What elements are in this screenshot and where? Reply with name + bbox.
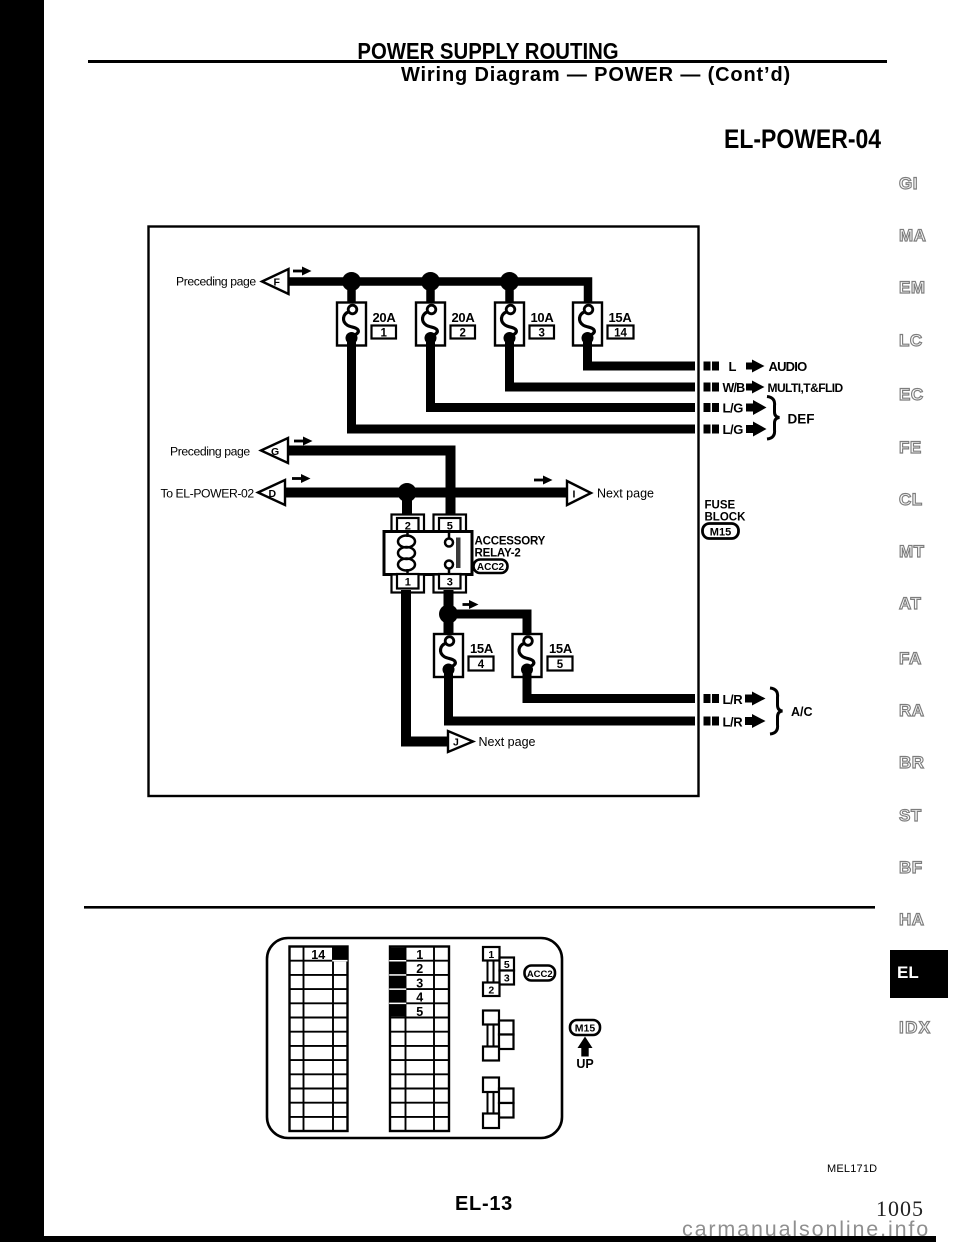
section tab FA (899, 649, 922, 669)
wire continuation dashes A/C upper (704, 694, 720, 703)
svg-text:RELAY-2: RELAY-2 (475, 548, 521, 560)
wire branch dot to fuse 5 (449, 614, 528, 637)
flow arrow after D (292, 474, 311, 483)
fuse 4 15A (434, 634, 463, 677)
relay ACC2 footprint pin 1 (483, 947, 500, 961)
fuse 2 20A (416, 303, 445, 346)
fuse 14 15A (573, 303, 602, 346)
wire stub bus to fuse 2 (426, 282, 435, 306)
label ACCESSORY RELAY-2 (475, 536, 546, 560)
svg-text:L/G: L/G (723, 422, 744, 437)
svg-text:4: 4 (478, 659, 485, 671)
svg-text:BLOCK: BLOCK (705, 512, 747, 524)
net label L AUDIO (729, 359, 808, 374)
connector badge ACC2 (474, 560, 508, 574)
svg-text:ACC2: ACC2 (477, 562, 505, 573)
svg-text:15A: 15A (470, 641, 494, 656)
fuse block middle grid (390, 947, 449, 1132)
fuse 14 location cell (311, 947, 347, 962)
pin number box 3 (530, 326, 555, 340)
svg-text:I: I (573, 489, 576, 501)
fuse 3 location cell (416, 976, 423, 990)
section tab BR (899, 753, 925, 773)
relay ACC2 footprint pin 2 (483, 983, 500, 997)
svg-text:UP: UP (576, 1057, 593, 1071)
bottom black margin bar (0, 1236, 936, 1242)
svg-text:Preceding page: Preceding page (176, 275, 256, 289)
svg-text:5: 5 (557, 659, 564, 671)
svg-text:5: 5 (416, 1005, 423, 1019)
relay footprint C pins right (499, 1089, 514, 1118)
wire fuse 5 to A/C exit upper (527, 672, 695, 699)
relay ACC2 pin 5 terminal (434, 515, 467, 533)
wire continuation dashes MULTI (704, 383, 720, 392)
svg-text:W/B: W/B (723, 381, 746, 395)
pin number box 2 (451, 326, 476, 340)
footer image code MEL171D (827, 1163, 877, 1175)
svg-text:FUSE: FUSE (705, 500, 736, 512)
title rule (88, 60, 887, 63)
connector badge M15 (703, 524, 739, 539)
relay switch contacts (445, 532, 461, 576)
label FUSE BLOCK (705, 500, 747, 524)
wire main bus from F to fuse 14 (288, 282, 588, 306)
svg-text:1: 1 (488, 949, 494, 961)
wire fuse 1 to DEF exit 2 (352, 341, 696, 429)
svg-text:To EL-POWER-02: To EL-POWER-02 (161, 487, 255, 501)
wire fuse 4 to A/C exit lower (449, 672, 696, 721)
wire relay pin 3 down to fuse 4 (444, 590, 454, 637)
svg-text:ACCESSORY: ACCESSORY (475, 536, 546, 548)
fuse 2 location cell (416, 962, 423, 976)
orientation arrow UP (576, 1037, 593, 1072)
svg-text:3: 3 (504, 973, 510, 985)
section tab IDX (899, 1018, 932, 1038)
relay footprint C body (488, 1092, 494, 1114)
wire fuse 3 to MULTI exit (510, 341, 696, 387)
junction dot above fuse 1 (342, 272, 361, 291)
subtitle Wiring Diagram - POWER - (Cont'd) (396, 64, 796, 87)
relay footprint B pin top (483, 1011, 499, 1025)
relay ACC2 footprint pin 5 (500, 958, 515, 972)
left black margin bar (0, 0, 44, 1242)
pin number box 14 (608, 326, 634, 340)
footer rule (84, 906, 875, 909)
node G triangle (from preceding page) (261, 438, 288, 463)
svg-text:L/R: L/R (723, 715, 744, 730)
section tab MT (899, 542, 925, 562)
badge M15 beside panel (570, 1020, 600, 1035)
relay ACC2 pin 3 terminal (434, 574, 467, 593)
section tab EC (899, 385, 924, 405)
brace DEF group (767, 397, 780, 440)
section tab GI (899, 174, 918, 194)
pin number box 1 (372, 326, 397, 340)
relay footprint B body (488, 1025, 494, 1047)
svg-text:14: 14 (614, 328, 627, 340)
node D triangle (to EL-POWER-02) (258, 480, 285, 505)
folio number 1005 (876, 1196, 924, 1222)
svg-text:ACC2: ACC2 (527, 969, 553, 980)
svg-text:AUDIO: AUDIO (769, 359, 808, 374)
fuse 5 15A (513, 634, 542, 677)
section tab HA (899, 910, 925, 930)
svg-text:14: 14 (311, 948, 325, 962)
fuse 1 20A (337, 303, 366, 346)
wire G to relay pin 5 (288, 451, 451, 518)
svg-text:M15: M15 (710, 527, 731, 539)
pin number box 4 (469, 657, 494, 672)
svg-text:15A: 15A (609, 310, 633, 325)
svg-text:L/R: L/R (723, 692, 744, 707)
wire D bus to I (285, 488, 567, 498)
svg-text:DEF: DEF (788, 412, 815, 427)
svg-text:Preceding page: Preceding page (170, 445, 250, 459)
node I triangle (next page) (567, 481, 591, 505)
svg-text:L: L (729, 359, 737, 374)
wire stub bus to fuse 1 (347, 282, 356, 306)
section tab ST (899, 806, 922, 826)
svg-text:2: 2 (416, 962, 423, 976)
wire continuation dashes DEF 1 (704, 403, 720, 412)
svg-text:2: 2 (488, 985, 494, 997)
junction dot below pin 3 (439, 605, 458, 624)
section tab EM (899, 278, 926, 298)
net label L/R upper (723, 692, 766, 708)
flow arrow before I (534, 476, 553, 485)
fuse block left grid (290, 947, 348, 1132)
flow arrow above F (293, 267, 312, 276)
fuse 4 location cell (416, 991, 423, 1005)
svg-text:1: 1 (405, 577, 411, 589)
wire relay pin 1 to J (406, 590, 448, 742)
section tab MA (899, 226, 926, 246)
flow arrow on branch (463, 600, 479, 609)
svg-text:L/G: L/G (723, 401, 744, 416)
relay coil (398, 531, 415, 575)
svg-text:3: 3 (416, 976, 423, 990)
section tab EL highlighted (890, 950, 948, 998)
svg-text:1: 1 (381, 328, 388, 340)
junction dot above fuse 3 (500, 272, 519, 291)
relay footprint B pin bottom (483, 1047, 499, 1061)
net label L/R lower (723, 714, 766, 730)
wire stub bus to fuse 3 (505, 282, 514, 306)
net label W/B MULTI,T&FLID (723, 381, 844, 396)
svg-text:J: J (453, 737, 459, 749)
section tab CL (899, 490, 923, 510)
section tab LC (899, 331, 923, 351)
brace A/C group (770, 688, 783, 734)
net label L/G upper (723, 400, 767, 416)
svg-text:1: 1 (416, 948, 423, 962)
diagram frame box (149, 227, 699, 797)
fuse 5 location cell (416, 1005, 423, 1019)
relay ACC2 pin 2 terminal (392, 515, 425, 533)
svg-text:MULTI,T&FLID: MULTI,T&FLID (768, 381, 844, 395)
svg-text:15A: 15A (549, 641, 573, 656)
badge ACC2 on panel (525, 966, 556, 981)
svg-text:10A: 10A (531, 310, 555, 325)
wire fuse 2 to DEF exit 1 (431, 341, 696, 408)
pin number box 5 (548, 657, 573, 672)
net label L/G lower (723, 422, 767, 438)
flow arrow above G wire (294, 437, 313, 446)
svg-text:A/C: A/C (791, 705, 813, 719)
wire fuse 14 to AUDIO exit (588, 341, 696, 366)
relay footprint C pin top (483, 1078, 499, 1093)
wire dot to relay pin 2 (402, 493, 412, 518)
node J triangle (next page) (448, 731, 473, 752)
svg-text:3: 3 (539, 328, 545, 340)
junction dot on D wire (398, 483, 417, 502)
node F triangle (from preceding page) (262, 269, 289, 294)
svg-text:F: F (274, 277, 281, 289)
svg-text:Next page: Next page (597, 487, 654, 501)
section tab AT (899, 594, 921, 614)
relay ACC2 footprint pin 3 (500, 971, 515, 985)
relay ACC2 footprint body (488, 961, 494, 983)
svg-text:3: 3 (447, 577, 453, 589)
wire continuation dashes A/C lower (704, 717, 720, 726)
page number EL-13 (455, 1193, 513, 1216)
diagram id EL-POWER-04 (724, 124, 881, 155)
svg-text:4: 4 (416, 991, 423, 1005)
svg-text:G: G (271, 446, 279, 458)
svg-text:2: 2 (460, 328, 466, 340)
svg-text:20A: 20A (452, 310, 476, 325)
fuse 1 location cell (389, 948, 423, 1017)
relay footprint C pin bottom (483, 1114, 499, 1129)
svg-text:Next page: Next page (479, 735, 536, 749)
section tab BF (899, 858, 923, 878)
fuse block outline panel (267, 938, 562, 1138)
svg-text:5: 5 (504, 959, 510, 971)
wire continuation dashes AUDIO (704, 362, 720, 371)
relay ACC2 body (384, 532, 472, 575)
svg-text:D: D (269, 488, 277, 500)
relay footprint B pins right (499, 1021, 514, 1050)
relay ACC2 pin 1 terminal (392, 574, 425, 593)
svg-text:20A: 20A (373, 310, 397, 325)
svg-text:M15: M15 (575, 1023, 596, 1035)
watermark carmanualsonline.info (682, 1217, 930, 1242)
wire continuation dashes DEF 2 (704, 425, 720, 434)
junction dot above fuse 2 (421, 272, 440, 291)
section tab FE (899, 438, 922, 458)
page title POWER SUPPLY ROUTING (134, 38, 842, 65)
fuse 3 10A (495, 303, 524, 346)
section tab RA (899, 701, 925, 721)
